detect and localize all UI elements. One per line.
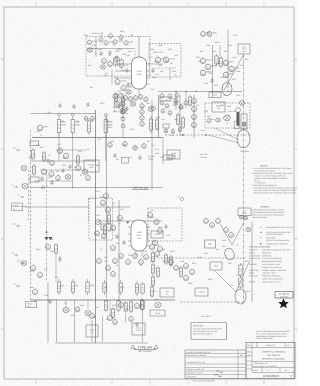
- svg-text:SEE NOTE 3: SEE NOTE 3: [201, 315, 211, 318]
- wire vertical x152: [151, 100, 153, 190]
- svg-text:CRT CIRCUIT: CRT CIRCUIT: [138, 350, 153, 353]
- svg-text:R230: R230: [61, 123, 66, 126]
- resistor R836: [179, 266, 182, 278]
- resistor R215: [111, 307, 114, 319]
- wire dashed deflection y135: [165, 134, 252, 136]
- potentiometer R846: [216, 118, 221, 122]
- svg-text:C371: C371: [204, 252, 208, 255]
- wire diag crt control 1: [232, 222, 244, 245]
- tube section V157: [161, 108, 165, 113]
- wire shield vertical x158: [158, 95, 160, 138]
- HV rectifier tube V842 ellipse: [235, 289, 246, 304]
- svg-text:AUTO STABILITY, LINE: AUTO STABILITY, LINE: [262, 263, 281, 266]
- wire bottom bus y343: [55, 342, 148, 344]
- tube section V838: [184, 274, 189, 280]
- resistor R218: [141, 299, 144, 311]
- tube section: [128, 96, 132, 102]
- svg-text:C196: C196: [44, 294, 48, 297]
- section label type 547 crt circuit: [131, 345, 158, 353]
- resistor R203: [86, 279, 89, 295]
- tube section V234A: [84, 116, 88, 121]
- svg-text:C885: C885: [158, 44, 162, 47]
- tube section V201: [32, 288, 37, 294]
- svg-text:TYPE 547 OSCILLOSCOPE: TYPE 547 OSCILLOSCOPE: [192, 380, 216, 383]
- potentiometer R134: [100, 65, 105, 69]
- svg-text:DC SH: DC SH: [103, 226, 109, 229]
- tube section V226: [57, 147, 62, 153]
- tube section V835: [174, 265, 179, 271]
- svg-text:6DJ8: 6DJ8: [137, 73, 141, 76]
- tube section V816: [223, 71, 233, 78]
- svg-text:690: 690: [170, 62, 173, 65]
- tube section V862: [210, 222, 215, 228]
- wire diag hv: [214, 270, 236, 292]
- scattered value annotations: [28, 30, 248, 321]
- tube section V170A: [103, 192, 108, 198]
- capacitor C172: [115, 234, 118, 239]
- svg-text:12BY7: 12BY7: [136, 234, 142, 237]
- wire bottom drop x142: [142, 311, 144, 342]
- svg-text:R123: R123: [130, 128, 134, 131]
- symbols body: [252, 209, 285, 219]
- svg-text:→: →: [260, 240, 262, 242]
- svg-text:.01: .01: [116, 56, 119, 59]
- svg-text:.04: .04: [134, 50, 137, 53]
- svg-text:★: ★: [260, 231, 262, 234]
- test point near unblank: [178, 196, 184, 201]
- svg-text:C121: C121: [44, 268, 48, 271]
- wire tube1 cathode drop: [138, 93, 140, 96]
- svg-text:+100: +100: [208, 72, 212, 75]
- tube section: [144, 254, 149, 260]
- svg-text:TOLERANCES .XX ±.02: TOLERANCES .XX ±.02: [187, 361, 205, 364]
- svg-text:FOCUS: FOCUS: [199, 291, 206, 294]
- wire vertical x112 gun: [111, 70, 113, 84]
- svg-text:R666: R666: [208, 278, 212, 281]
- svg-text:+350: +350: [47, 111, 51, 114]
- ellipse crt cathode: [222, 83, 232, 96]
- wire ladder top stubs: [58, 114, 107, 162]
- svg-text:DRAWN J. MILES 4-12: DRAWN J. MILES 4-12: [187, 368, 205, 371]
- block geom adjust: [212, 102, 225, 112]
- tube section V847D: [192, 121, 197, 127]
- svg-text:+100: +100: [110, 140, 114, 143]
- svg-text:+225: +225: [36, 130, 40, 133]
- tube section V164: [171, 129, 175, 134]
- wire vertical x28 dashed: [28, 170, 30, 220]
- tube section V146: [160, 93, 164, 98]
- capacitor C237: [72, 104, 75, 109]
- tube section V206: [135, 302, 140, 308]
- svg-text:ASTIGMATISM: ASTIGMATISM: [249, 254, 261, 257]
- potentiometer R868: [246, 228, 251, 232]
- tube section V143A: [120, 100, 125, 106]
- svg-text:.02: .02: [48, 154, 51, 157]
- boxed comp below bus: [122, 158, 129, 164]
- tube section V148: [175, 92, 179, 97]
- svg-text:+350: +350: [206, 44, 210, 47]
- svg-text:C842: C842: [50, 250, 54, 253]
- HV outline box left: [234, 122, 239, 129]
- block hv transformer: [210, 262, 222, 270]
- resistor R822: [151, 251, 154, 263]
- tube bottom column x123: [121, 93, 125, 138]
- potentiometer R161: [148, 107, 154, 112]
- svg-text:610: 610: [216, 248, 219, 251]
- boxed note small: [163, 155, 172, 160]
- svg-text:V135A: V135A: [117, 40, 123, 43]
- svg-text:730: 730: [76, 120, 79, 123]
- tube section V822B: [158, 245, 163, 251]
- svg-text:C563: C563: [124, 308, 128, 311]
- svg-text:AMPLITUDE CALIBRATOR: AMPLITUDE CALIBRATOR: [262, 278, 284, 281]
- tube section V175: [110, 224, 115, 230]
- svg-text:MIDRANGE: MIDRANGE: [262, 251, 272, 254]
- tube section V224B: [49, 170, 54, 176]
- tube section V227: [63, 152, 68, 158]
- svg-text:CRT CKT: CRT CKT: [280, 295, 289, 298]
- svg-text:ADJ: ADJ: [217, 107, 220, 110]
- wire bottom drop x92: [91, 320, 93, 342]
- svg-text:-1850V: -1850V: [197, 256, 203, 259]
- svg-text:+225: +225: [97, 138, 101, 141]
- part number reference box: [275, 292, 293, 299]
- svg-text:V832: V832: [222, 245, 226, 248]
- svg-text:V193: V193: [104, 256, 108, 259]
- tube section V133B: [99, 37, 103, 42]
- wire y207 segment: [96, 206, 131, 208]
- svg-text:+8350V: +8350V: [214, 41, 221, 44]
- capacitor C226: [68, 164, 71, 169]
- svg-text:V152B: V152B: [126, 85, 132, 88]
- resistor R222: [31, 148, 34, 160]
- arrow on dashed deflection 2: [182, 134, 185, 136]
- tube section V147: [168, 93, 172, 98]
- svg-text:900: 900: [104, 74, 107, 77]
- top ruler scale: [17, 2, 283, 7]
- wire main bus y137: [32, 137, 163, 139]
- svg-text:REFER TO DIAGRAM NOTED: REFER TO DIAGRAM NOTED: [266, 239, 290, 242]
- resistor R169: [188, 95, 191, 107]
- svg-text:C439: C439: [168, 48, 172, 51]
- potentiometer R262: [21, 261, 27, 266]
- resistor R201: [57, 279, 60, 295]
- potentiometer R153: [121, 108, 127, 113]
- svg-text:LINE 117VAC 60 CYCLE: LINE 117VAC 60 CYCLE: [262, 280, 282, 283]
- tube section V149: [174, 98, 178, 103]
- svg-text:C586: C586: [204, 82, 208, 85]
- reference star marker: [278, 299, 288, 309]
- tube section V834: [169, 259, 174, 265]
- svg-text:R538: R538: [172, 70, 176, 73]
- resistor R211: [117, 299, 120, 312]
- wire gate to bus: [26, 206, 89, 208]
- tube section V228: [75, 164, 80, 170]
- wire cluster1 interconnect: [87, 48, 135, 50]
- potentiometer R205: [63, 308, 69, 313]
- svg-text:UNLESS OTHERWISE NOTED: UNLESS OTHERWISE NOTED: [187, 351, 212, 354]
- resistor R236: [104, 117, 112, 136]
- svg-text:B: B: [295, 237, 297, 241]
- svg-text:770: 770: [112, 44, 115, 47]
- tube section V138: [102, 58, 107, 64]
- svg-text:R954: R954: [120, 30, 124, 33]
- svg-text:POSITION CENTERED: POSITION CENTERED: [262, 275, 281, 278]
- svg-text:MAXIMUM BRIGHTNESS: MAXIMUM BRIGHTNESS: [262, 260, 282, 263]
- svg-text:C126: C126: [96, 214, 100, 217]
- svg-text:R266: R266: [100, 196, 104, 199]
- wire drop x176: [175, 91, 177, 110]
- wire vertical x30 dashed: [30, 130, 32, 300]
- svg-text:.04: .04: [152, 144, 155, 147]
- dashed wire y198: [89, 198, 99, 200]
- svg-text:900: 900: [198, 60, 201, 63]
- resistor R146: [121, 96, 124, 107]
- resistor R247: [54, 243, 57, 255]
- tube section: [123, 95, 127, 101]
- wire dashed y258: [150, 257, 247, 259]
- deflection plate mark: [45, 237, 53, 240]
- right ruler letters: [295, 57, 298, 331]
- tube section V174: [117, 214, 122, 220]
- title block: [246, 343, 295, 379]
- tube section V846: [207, 118, 211, 123]
- svg-text:MODEL 547: MODEL 547: [266, 344, 275, 347]
- resistor R145: [114, 92, 117, 103]
- wire vertical x252: [251, 222, 253, 302]
- tube section V210: [129, 316, 134, 322]
- tube section V185: [149, 243, 154, 249]
- capacitor C233: [61, 168, 64, 173]
- arrow to grid: [126, 221, 129, 224]
- tube section: [106, 265, 111, 271]
- tube section V169: [123, 141, 127, 147]
- svg-text:.08: .08: [118, 222, 121, 225]
- svg-text:V801: V801: [212, 32, 216, 35]
- left edge marks: [11, 147, 24, 288]
- tube section V261: [37, 271, 42, 277]
- capacitor C182: [164, 224, 167, 229]
- wire bottom drops: [66, 300, 110, 316]
- HV rectifier outline box: [241, 114, 247, 129]
- svg-text:C489: C489: [36, 144, 40, 147]
- svg-text:C660: C660: [244, 58, 248, 61]
- svg-text:R114: R114: [232, 78, 236, 81]
- svg-text:L110: L110: [155, 73, 159, 76]
- tube section V865: [229, 232, 234, 238]
- svg-text:△SWEEP 'CA' TRIGGER△: △SWEEP 'CA' TRIGGER△: [262, 351, 286, 354]
- tube section V232: [56, 175, 61, 181]
- wire diag hv2: [236, 260, 250, 292]
- svg-text:R431: R431: [84, 34, 88, 37]
- wire delay line drop: [169, 68, 171, 80]
- svg-text:R171: R171: [88, 64, 92, 67]
- potentiometer R867: [243, 216, 247, 220]
- svg-text:C353: C353: [122, 144, 126, 147]
- tube section V181: [147, 211, 152, 217]
- resistor R803: [215, 54, 218, 66]
- tube section V810C: [200, 69, 212, 76]
- tube section V815: [229, 65, 239, 72]
- tube section V162: [164, 128, 168, 133]
- dashed shield box delay-line left: [86, 37, 150, 77]
- wire y221 segment: [98, 220, 162, 222]
- tube section V851: [240, 100, 245, 106]
- tube section V836: [184, 262, 189, 268]
- wire vertical x228: [227, 30, 229, 88]
- diagonal wire HV: [224, 54, 244, 90]
- notes body: [252, 167, 298, 195]
- block cal: [30, 177, 39, 182]
- wire cluster1 drop: [95, 37, 97, 57]
- svg-text:V159: V159: [137, 70, 143, 73]
- resistor R141: [114, 56, 117, 67]
- svg-text:R406: R406: [105, 120, 109, 123]
- svg-text:+225: +225: [174, 54, 178, 57]
- connector box left bottom: [26, 302, 37, 308]
- boxed label cal: [150, 310, 165, 316]
- svg-text:SYMBOLS:: SYMBOLS:: [260, 206, 271, 209]
- svg-text:C179: C179: [160, 156, 164, 159]
- potentiometer R224: [21, 166, 27, 171]
- svg-text:.03: .03: [150, 56, 153, 59]
- tube section V139: [108, 61, 113, 67]
- tube section V182: [154, 218, 159, 224]
- tube section V152B: [121, 84, 133, 90]
- tube section V153: [179, 104, 183, 109]
- svg-text:R232: R232: [75, 123, 80, 126]
- svg-text:D150 4JK: D150 4JK: [200, 153, 208, 156]
- svg-text:R298: R298: [128, 254, 132, 257]
- svg-text:+100: +100: [70, 314, 74, 317]
- tube section V171: [133, 145, 137, 151]
- svg-text:.05: .05: [140, 304, 143, 307]
- tube section V863: [216, 218, 221, 224]
- svg-text:TO V914: TO V914: [200, 156, 207, 159]
- tube section V207: [75, 306, 80, 312]
- svg-text:+225: +225: [124, 64, 128, 67]
- svg-text:C744: C744: [236, 94, 240, 97]
- svg-text:V183: V183: [137, 231, 143, 234]
- capacitor C158: [151, 68, 154, 73]
- wire vertical x95: [95, 110, 97, 343]
- resistor R232: [71, 117, 79, 136]
- svg-text:◇: ◇: [260, 226, 262, 229]
- wire bottom drop x56: [56, 300, 58, 342]
- wire bus y187: [31, 187, 164, 189]
- svg-text:C337: C337: [28, 156, 32, 159]
- svg-text:+350: +350: [116, 48, 120, 51]
- tube top lead: [138, 36, 140, 57]
- svg-text:220: 220: [112, 202, 115, 205]
- tube section V156: [165, 103, 169, 108]
- svg-text:VOLTAGE CONDITIONS:: VOLTAGE CONDITIONS:: [249, 245, 271, 248]
- tube section V140: [115, 56, 120, 62]
- svg-text:T801: T801: [196, 56, 200, 59]
- svg-text:TEST POINT: TEST POINT: [266, 236, 276, 239]
- block unblank: [205, 240, 216, 248]
- svg-text:R811: R811: [108, 126, 112, 129]
- svg-text:630: 630: [118, 90, 121, 93]
- wire drop x72 to bus: [72, 161, 74, 188]
- svg-text:C616: C616: [214, 84, 218, 87]
- svg-text:.09: .09: [34, 300, 37, 303]
- patent notice text: [256, 330, 290, 340]
- svg-text:B: B: [1, 237, 3, 241]
- svg-text:SCALE ILLUM: SCALE ILLUM: [249, 257, 261, 260]
- svg-text:R627: R627: [228, 262, 232, 265]
- tube section: [138, 94, 142, 100]
- svg-text:.06: .06: [108, 230, 111, 233]
- potentiometer R206: [85, 311, 91, 316]
- svg-text:.03: .03: [58, 260, 61, 263]
- resistor R213: [140, 298, 143, 311]
- resistor R234: [87, 118, 90, 135]
- svg-text:380: 380: [90, 86, 93, 89]
- svg-text:C174: C174: [120, 208, 124, 211]
- svg-text:V152A: V152A: [120, 79, 126, 82]
- svg-text:+100: +100: [150, 216, 154, 219]
- svg-text:ASTIG: ASTIG: [154, 233, 160, 236]
- svg-text:MODE: MODE: [249, 272, 255, 275]
- resistor R195: [169, 255, 172, 267]
- tube section: [113, 93, 117, 99]
- resistor R165: [149, 116, 152, 133]
- svg-text:+225: +225: [128, 156, 132, 159]
- tube section V260: [30, 264, 35, 270]
- tube envelope V183 CRT gun lower: [128, 220, 150, 256]
- tube section V177: [95, 230, 100, 236]
- block focus block: [195, 288, 208, 296]
- svg-text:R159: R159: [128, 50, 132, 53]
- dashed wire x88 down: [88, 199, 90, 223]
- capacitor C244: [58, 256, 61, 261]
- block grid supply: [209, 92, 221, 98]
- svg-text:FOR ADJUSTMENT.: FOR ADJUSTMENT.: [252, 216, 268, 219]
- tube section: [119, 253, 124, 259]
- svg-text:+225: +225: [57, 143, 61, 146]
- svg-text:FOCUS: FOCUS: [249, 251, 256, 254]
- tube section V801: [207, 31, 217, 37]
- capacitor C232: [50, 180, 53, 185]
- svg-text:.09: .09: [174, 74, 177, 77]
- block astig: [151, 231, 163, 238]
- resistor R217: [141, 282, 144, 295]
- tube section V114A: [155, 56, 167, 63]
- wire HV dash-dot x243: [243, 55, 245, 302]
- resistor R824: [151, 275, 154, 287]
- HV multiplier dark bar: [237, 112, 240, 126]
- resistor R212: [129, 300, 132, 313]
- tube section: [111, 271, 116, 277]
- svg-text:.09: .09: [134, 146, 137, 149]
- tube section V837: [190, 268, 195, 274]
- tube section V233: [86, 175, 91, 181]
- svg-text:2: 2: [268, 369, 269, 372]
- svg-text:VOLTS/CM: VOLTS/CM: [249, 275, 258, 278]
- wire x56 drop: [55, 255, 57, 282]
- wire link y178: [34, 180, 72, 182]
- svg-text:580: 580: [130, 34, 133, 37]
- svg-text:+225: +225: [146, 140, 150, 143]
- test point on bus: [41, 185, 49, 190]
- note box important: [191, 323, 227, 340]
- block dc shift: [101, 224, 111, 230]
- section label vert sig out: [132, 187, 149, 190]
- block heater supply: [160, 288, 174, 297]
- capacitor C164: [125, 106, 128, 111]
- svg-text:FULLY CLOCKWISE FOR: FULLY CLOCKWISE FOR: [262, 257, 283, 260]
